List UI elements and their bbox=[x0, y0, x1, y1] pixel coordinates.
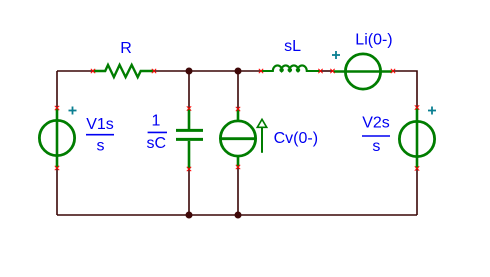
wire capacitor upper bbox=[188, 71, 190, 108]
wire bottom rail bbox=[57, 214, 417, 216]
svg-text:Li(0-): Li(0-) bbox=[355, 32, 392, 49]
wire capacitor lower bbox=[188, 169, 190, 215]
junction top-left node bbox=[186, 68, 193, 75]
fraction bar of V1s label bbox=[86, 134, 114, 136]
wire right lower bbox=[416, 169, 418, 216]
value label 1/sC bbox=[147, 113, 167, 153]
junction bottom-right node bbox=[235, 212, 242, 219]
polarity + of V1s bbox=[69, 107, 77, 115]
svg-text:sC: sC bbox=[147, 135, 167, 152]
wire current-source lower bbox=[237, 167, 239, 215]
junction bottom-left node bbox=[186, 212, 193, 219]
wire top-left bbox=[57, 70, 93, 72]
wire left upper bbox=[56, 71, 58, 108]
value label V1s/s bbox=[86, 116, 114, 154]
capacitor 1/sC bbox=[176, 109, 203, 170]
wire between inductor and Li source bbox=[321, 70, 334, 72]
terminal marks R bbox=[91, 69, 156, 73]
svg-text:sL: sL bbox=[284, 38, 301, 55]
voltage source V1s bbox=[39, 108, 74, 168]
wire current-source upper bbox=[237, 71, 239, 109]
svg-text:Cv(0-): Cv(0-) bbox=[274, 130, 318, 147]
terminal marks capacitor bbox=[187, 106, 191, 171]
svg-text:R: R bbox=[120, 40, 132, 57]
voltage source V2s bbox=[399, 108, 434, 169]
terminal marks V2s bbox=[415, 105, 419, 170]
terminal marks V1s bbox=[55, 106, 59, 170]
svg-text:V1s: V1s bbox=[86, 116, 114, 133]
svg-text:1: 1 bbox=[152, 113, 161, 130]
voltage source Li(0-) bbox=[334, 54, 393, 89]
value label V2s/s bbox=[362, 115, 390, 156]
junction top-right node bbox=[235, 68, 242, 75]
terminal marks Li(0-) bbox=[330, 69, 395, 73]
fraction bar of 1/sC label bbox=[148, 131, 167, 133]
svg-text:s: s bbox=[97, 138, 105, 155]
polarity + of Li(0-) bbox=[332, 51, 340, 59]
polarity + of V2s bbox=[428, 107, 436, 115]
wire left lower bbox=[56, 168, 58, 215]
fraction bar of V2s label bbox=[362, 135, 390, 137]
wire top-right bbox=[393, 71, 417, 108]
inductor sL bbox=[261, 65, 321, 71]
wire top-middle bbox=[154, 70, 261, 72]
terminal marks sL bbox=[259, 69, 323, 73]
svg-text:V2s: V2s bbox=[362, 115, 390, 132]
arrow of current source Cv(0-) bbox=[257, 119, 266, 153]
terminal marks Cv(0-) bbox=[236, 107, 240, 169]
svg-text:s: s bbox=[372, 138, 380, 155]
resistor R bbox=[93, 65, 154, 77]
current source Cv(0-) bbox=[220, 109, 255, 167]
